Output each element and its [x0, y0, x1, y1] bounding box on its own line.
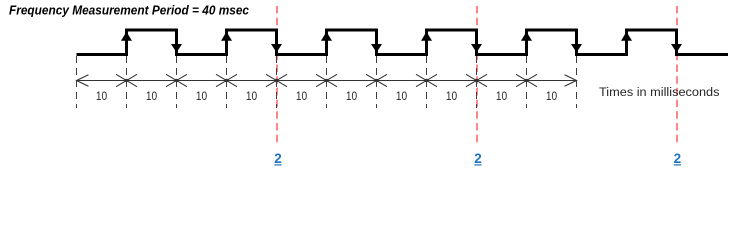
waveform: square wave signal	[77, 30, 729, 55]
red dashed marker line M1 (40 msec period boundary)	[276, 6, 278, 143]
svg-text:10: 10	[396, 91, 407, 103]
svg-text:10: 10	[346, 91, 357, 103]
footnote reference 2 #2	[474, 151, 482, 166]
svg-text:10: 10	[96, 91, 107, 103]
svg-text:10: 10	[446, 91, 457, 103]
rising-edge arrows	[121, 32, 632, 41]
dimension arrowheads (open X style at interior ticks)	[77, 74, 577, 86]
falling-edge arrows	[171, 44, 682, 53]
dimension line	[77, 80, 577, 82]
svg-text:10: 10	[296, 91, 307, 103]
svg-text:10: 10	[146, 91, 157, 103]
red dashed marker line M2 (40 msec period boundary)	[476, 6, 478, 143]
svg-text:10: 10	[496, 91, 507, 103]
svg-text:10: 10	[196, 91, 207, 103]
footnote reference 2 #1	[274, 151, 282, 166]
svg-text:10: 10	[246, 91, 257, 103]
svg-text:2: 2	[474, 151, 482, 166]
svg-text:10: 10	[546, 91, 557, 103]
svg-text:Times in milliseconds: Times in milliseconds	[599, 85, 720, 99]
red dashed marker line M3 (40 msec period boundary)	[676, 6, 678, 143]
footnote reference 2 #3	[674, 151, 682, 166]
dashed tick lines at 10ms intervals	[77, 56, 577, 108]
svg-text:2: 2	[674, 151, 682, 166]
svg-text:2: 2	[274, 151, 282, 166]
interval labels: 10	[96, 91, 557, 103]
svg-text:Frequency Measurement Period =: Frequency Measurement Period = 40 msec	[9, 4, 249, 18]
